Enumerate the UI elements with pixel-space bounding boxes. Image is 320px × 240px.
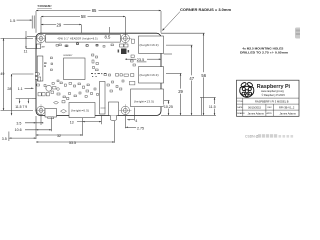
tiny labels right of DSI xyxy=(44,63,47,67)
bottom-left small dim lines xyxy=(16,98,32,100)
dim 32 line xyxy=(36,134,83,136)
mounting hole H3 bottom-left xyxy=(35,104,47,116)
dim text 29 xyxy=(178,89,184,95)
dim 1.5 leader and ticks xyxy=(17,19,33,21)
board bottom ext right xyxy=(161,115,216,117)
USB connector USB1 (top, double stack) xyxy=(139,36,164,53)
Ethernet jack J1 xyxy=(131,89,164,107)
dim 58 ext right xyxy=(124,17,126,36)
svg-text:11.5 7 9: 11.5 7 9 xyxy=(15,105,27,109)
dim 58 line xyxy=(41,16,125,18)
raspberry pi logo xyxy=(240,82,254,97)
svg-text:RPI-3B-V1_2: RPI-3B-V1_2 xyxy=(279,106,295,110)
right dims xyxy=(125,33,216,115)
dim 3.5 line (hole offset) xyxy=(25,122,43,124)
svg-text:58: 58 xyxy=(81,14,86,19)
svg-text:2.75: 2.75 xyxy=(137,126,144,130)
USB connector USB2 (bottom, double stack) xyxy=(139,67,164,83)
dim 49 ext top xyxy=(1,37,34,39)
svg-text:47: 47 xyxy=(189,76,194,81)
dim text 29 xyxy=(56,22,64,27)
svg-text:53.5: 53.5 xyxy=(69,141,76,145)
svg-text:(height=13.5): (height=13.5) xyxy=(134,99,154,103)
dim 13 line xyxy=(77,121,101,123)
svg-text:49: 49 xyxy=(0,72,4,76)
micro USB power connector J2 xyxy=(45,109,57,119)
dim 29 line xyxy=(41,24,82,26)
misc parts between GPIO and SoC xyxy=(51,43,114,71)
dim text 56 xyxy=(201,72,207,78)
title block table lines xyxy=(237,98,300,116)
svg-text:29: 29 xyxy=(57,22,62,27)
label TOP ASSEMBLY xyxy=(37,4,52,8)
corner radius callout xyxy=(162,8,231,31)
dim 11 ext xyxy=(26,48,36,50)
dim 28 ext top xyxy=(12,73,34,75)
svg-text:29: 29 xyxy=(178,89,183,94)
DSI edge pads xyxy=(35,73,37,79)
dim text 58 xyxy=(80,14,88,19)
svg-text:32: 32 xyxy=(57,134,61,138)
title block frame xyxy=(237,80,300,116)
svg-text:85: 85 xyxy=(92,8,97,13)
dim 2.75 line xyxy=(126,126,137,128)
SoC U1 BCM2837 xyxy=(64,55,86,80)
svg-text:3.5: 3.5 xyxy=(16,121,21,125)
dim 10.25 line xyxy=(168,101,170,116)
small parts below GPIO header xyxy=(56,43,98,47)
svg-text:(height=6.5): (height=6.5) xyxy=(71,109,89,113)
GPIO 40-way header J8 xyxy=(46,35,121,43)
svg-text:06/10/2015: 06/10/2015 xyxy=(248,106,262,110)
svg-text:3.5: 3.5 xyxy=(2,137,7,141)
svg-text:CORNER RADIUS = 3.0mm: CORNER RADIUS = 3.0mm xyxy=(180,8,231,12)
svg-text:DATE: DATE xyxy=(237,106,243,109)
dim 10.6 line xyxy=(25,129,52,131)
svg-text:10.25: 10.25 xyxy=(164,105,173,109)
svg-text:23.5: 23.5 xyxy=(137,58,144,62)
svg-text:28: 28 xyxy=(7,87,11,91)
dim 85 ext right xyxy=(160,11,162,33)
ext line x201.7 xyxy=(201,98,203,116)
svg-text:1.1: 1.1 xyxy=(18,87,23,91)
dim 85 ext left xyxy=(35,11,37,33)
audio jack barrel protruding below board xyxy=(110,116,116,121)
dim 6 line xyxy=(127,119,134,121)
dim 23.5 line xyxy=(125,58,136,60)
svg-text:BCM2837: BCM2837 xyxy=(64,55,74,57)
bottom dims xyxy=(9,108,136,143)
small parts above HDMI xyxy=(54,98,69,114)
svg-text:© Raspberry Pi 2015: © Raspberry Pi 2015 xyxy=(262,94,286,97)
dim 11.5 line xyxy=(214,98,216,116)
dim text 11.5 xyxy=(209,104,219,109)
svg-text:8.5: 8.5 xyxy=(105,35,111,40)
svg-text:REV: REV xyxy=(268,107,273,109)
svg-text:4: 4 xyxy=(135,119,137,123)
svg-text:James Adams: James Adams xyxy=(248,112,265,116)
dim text 10.25 xyxy=(164,104,175,109)
DSI display connector S1 xyxy=(37,56,43,81)
dim 49 ext bottom xyxy=(1,109,34,111)
capacitor C6 xyxy=(46,85,52,91)
small parts column left of USB stack xyxy=(131,39,136,66)
board outline xyxy=(36,33,161,115)
svg-text:DRAWN: DRAWN xyxy=(237,112,245,115)
dim text 47 xyxy=(189,75,195,81)
watermark bottom right xyxy=(245,134,293,138)
svg-text:40W 0.1" HEADER (height=8.5): 40W 0.1" HEADER (height=8.5) xyxy=(58,38,98,41)
svg-text:1.5: 1.5 xyxy=(10,18,16,23)
small parts cluster bottom-left xyxy=(38,87,60,96)
dim 85 line xyxy=(36,10,161,12)
dim 49 line xyxy=(3,38,5,110)
svg-text:TOP ASSEMBLY: TOP ASSEMBLY xyxy=(37,4,52,8)
dim text 85 xyxy=(91,8,99,13)
svg-text:56: 56 xyxy=(201,73,206,78)
left dims xyxy=(1,31,37,115)
mounting hole H1 top-left xyxy=(35,32,47,44)
arrowheads for dimensions xyxy=(3,10,216,143)
small parts row above Ethernet xyxy=(104,74,135,85)
audio jack J4 body xyxy=(109,102,119,116)
small parts near left edge mid xyxy=(37,73,46,87)
svg-text:James Adams: James Adams xyxy=(280,112,297,116)
svg-text:13: 13 xyxy=(70,120,74,124)
dim 3.5 far bottom-left xyxy=(8,132,10,142)
svg-text:TITLE: TITLE xyxy=(237,101,243,103)
WiFi module U3 xyxy=(37,44,46,49)
svg-text:RASPBERRY PI 3 MODEL B: RASPBERRY PI 3 MODEL B xyxy=(255,100,289,104)
dim 29 line xyxy=(180,73,182,115)
dim 28 line xyxy=(11,74,13,115)
mounting hole H2 top-right xyxy=(119,32,131,44)
svg-text:(height=16.0): (height=16.0) xyxy=(140,43,159,47)
dim 11 line xyxy=(25,31,27,49)
ext line x109 xyxy=(109,27,111,33)
HDMI connector J3 xyxy=(69,103,95,118)
USB/LAN chip U2 xyxy=(118,44,130,54)
mounting hole H4 bottom-right xyxy=(119,104,131,116)
svg-text:(height=16.0): (height=16.0) xyxy=(140,73,159,77)
misc small parts mid-board xyxy=(52,80,124,98)
mounting holes note xyxy=(240,46,288,54)
dim 29 ext right xyxy=(81,25,83,33)
svg-text:www.raspberrypi.org: www.raspberrypi.org xyxy=(261,90,284,93)
svg-text:DRILLED TO 2.75 +/- 0.05mm: DRILLED TO 2.75 +/- 0.05mm xyxy=(240,51,288,55)
small parts right of SoC xyxy=(92,54,99,71)
stamp blob right edge xyxy=(295,28,301,39)
dim 1.1 leader xyxy=(25,87,34,89)
ext line y54 xyxy=(164,53,172,55)
svg-text:APPD: APPD xyxy=(267,112,273,115)
dim 58 ext left xyxy=(40,17,42,33)
svg-text:CSDN @: CSDN @ xyxy=(245,135,260,139)
svg-text:11: 11 xyxy=(24,49,28,53)
dim 53.5 line xyxy=(36,141,114,143)
svg-text:10.6: 10.6 xyxy=(15,128,22,132)
dim 56 line xyxy=(203,33,205,115)
dash row components xyxy=(91,73,106,77)
CSI camera connector S2 xyxy=(100,82,106,115)
dim 47 line xyxy=(191,45,193,115)
svg-text:11.5: 11.5 xyxy=(209,105,216,109)
